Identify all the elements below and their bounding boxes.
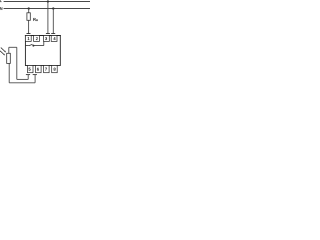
device top edge thick: [25, 35, 61, 37]
terminal box 1: [25, 36, 31, 42]
terminal tick 4: [51, 33, 55, 35]
terminal 3 pin number: [45, 37, 47, 40]
wire N rail: [4, 8, 90, 10]
resistor Rn value label: [33, 18, 35, 21]
junction dot on N rail to terminal 4: [52, 7, 54, 9]
wire photoresistor bottom down: [8, 63, 10, 82]
photoresistor body: [7, 53, 11, 63]
light arrow 1: [1, 48, 6, 53]
node N label: [0, 7, 2, 10]
terminal tick 1: [27, 33, 31, 35]
terminal 8 pin number: [54, 68, 56, 71]
relay contact: fixed lead from left wall: [26, 45, 29, 47]
wire bottom run to terminal 6: [9, 82, 35, 84]
junction dot on N rail to resistor: [28, 7, 30, 9]
terminal box 4: [51, 36, 57, 42]
terminal tick 6: [33, 74, 37, 76]
wire N junction down to resistor: [28, 9, 30, 13]
junction dot on L rail: [47, 0, 49, 2]
wire right drop to bottom run: [16, 47, 18, 79]
light arrow 2: [0, 51, 5, 56]
relay contact: lead to terminal 3 stub: [33, 45, 43, 47]
terminal box 7: [44, 66, 50, 73]
wire L rail: [4, 1, 90, 3]
terminal 4 pin number: [53, 37, 55, 40]
wire photoresistor top up: [8, 47, 10, 53]
terminal 1 pin number: [28, 37, 30, 40]
terminal tick 5: [26, 74, 30, 76]
terminal 2 pin number: [36, 37, 38, 40]
terminal 7 pin number: [45, 68, 47, 71]
wire up into tick 5: [27, 75, 29, 80]
terminal tick 3: [46, 33, 50, 35]
terminal box 6: [36, 66, 42, 73]
device body outline: [25, 36, 60, 66]
terminal 5 pin number: [29, 68, 31, 71]
wire photoresistor top horizontal: [9, 46, 17, 48]
resistor Rn body: [27, 13, 30, 20]
relay contact: pivot dot: [32, 45, 34, 47]
wire resistor to terminal 1: [28, 20, 30, 34]
wire bottom run to terminal 5: [17, 78, 28, 80]
wire L junction down to terminal 3: [47, 2, 49, 34]
terminal box 8: [52, 66, 58, 73]
wire up into tick 6: [34, 75, 36, 83]
node L label: [0, 0, 2, 2]
terminal box 5: [28, 66, 34, 73]
terminal box 3: [44, 36, 50, 42]
wire N junction down to terminal 4: [52, 9, 54, 34]
terminal box 2: [34, 36, 40, 42]
wire stub up to terminal 3 box: [43, 41, 45, 45]
relay contact: blade: [29, 44, 33, 46]
terminal 6 pin number: [37, 68, 39, 71]
